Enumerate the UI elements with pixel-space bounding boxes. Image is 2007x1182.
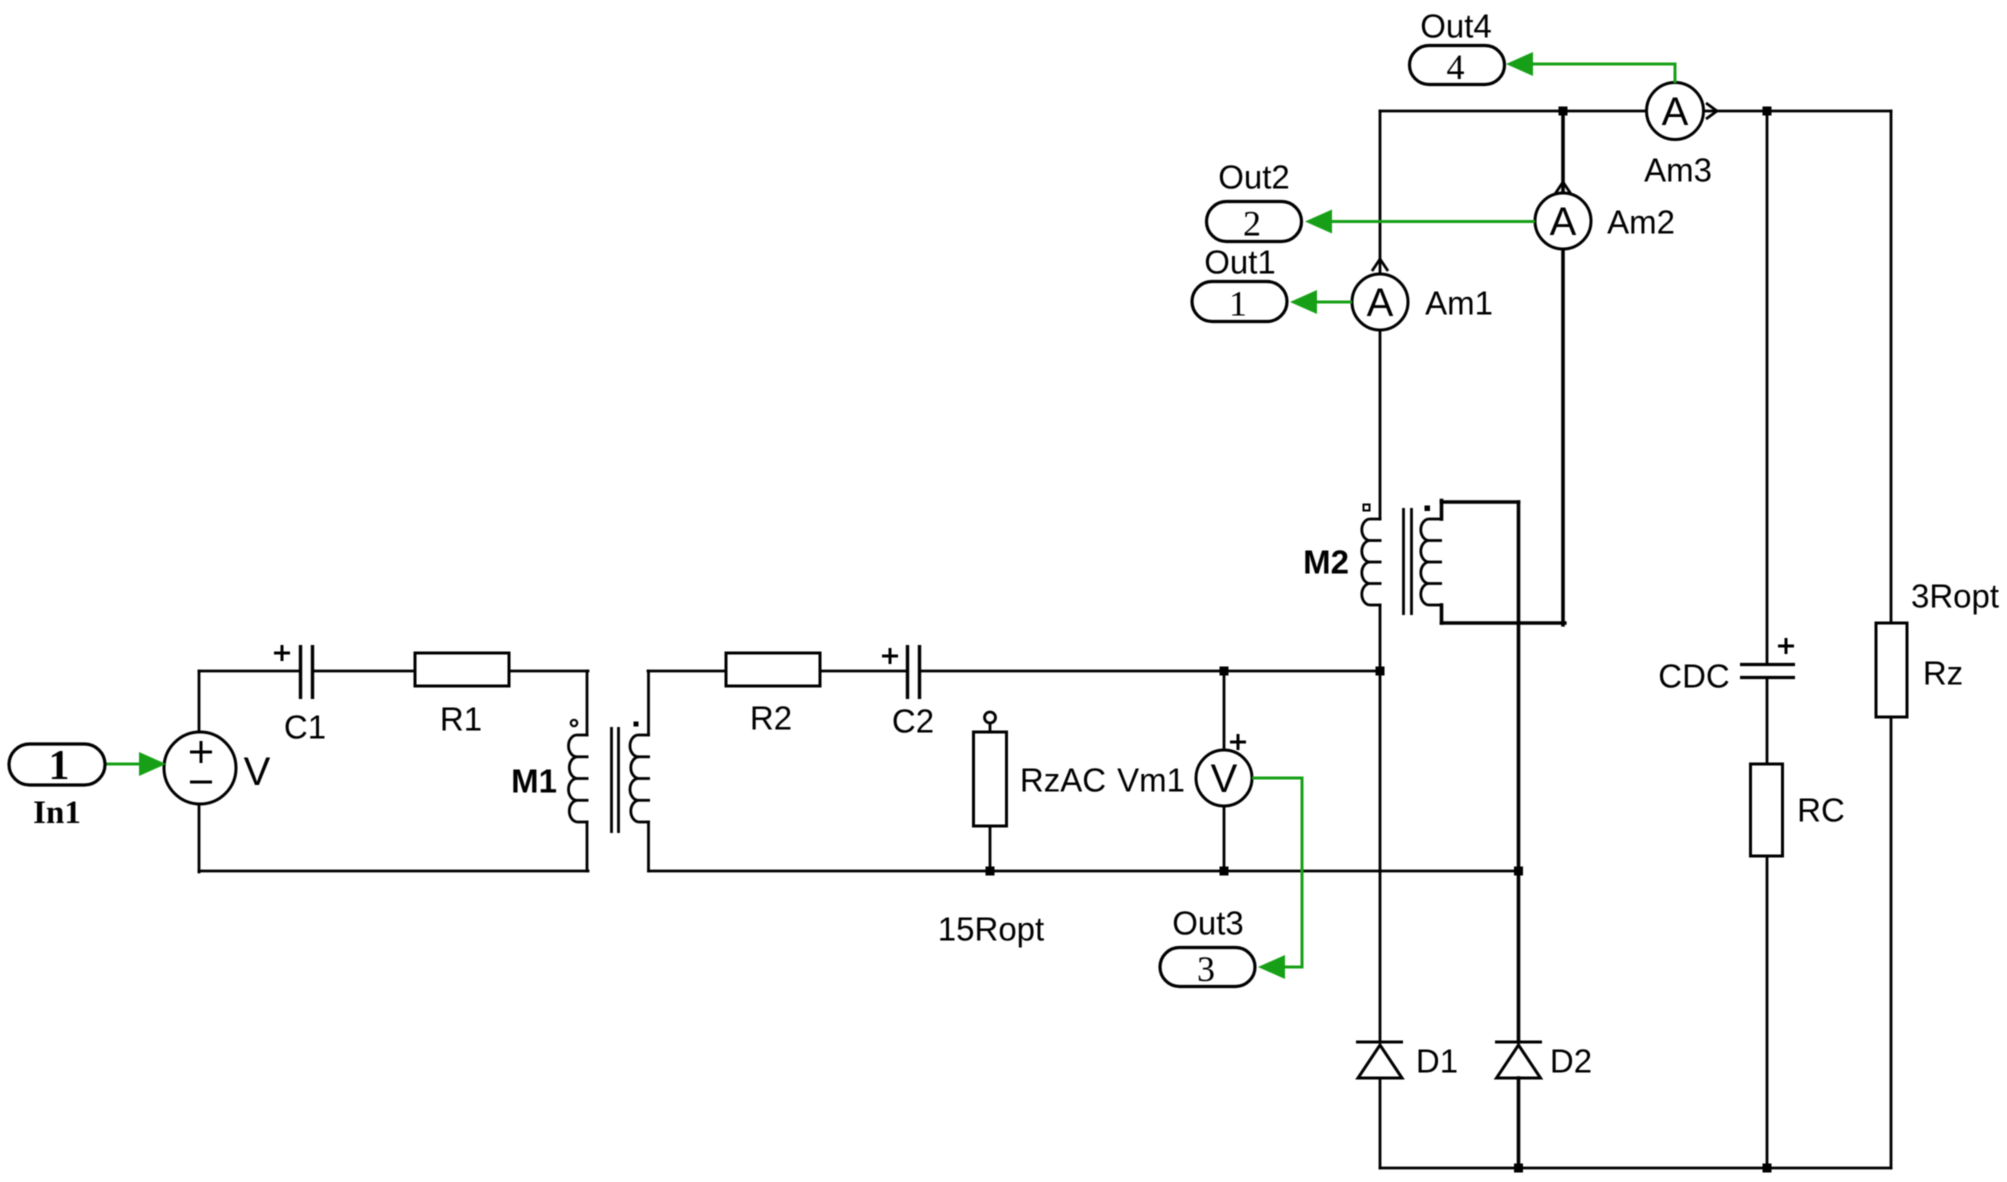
svg-text:15Ropt: 15Ropt <box>938 911 1044 948</box>
svg-text:Out1: Out1 <box>1204 244 1276 281</box>
svg-text:RzAC: RzAC <box>1020 762 1106 799</box>
svg-text:M1: M1 <box>511 763 557 800</box>
svg-text:3Ropt: 3Ropt <box>1911 578 1999 615</box>
svg-text:A: A <box>1662 90 1689 134</box>
svg-text:Out2: Out2 <box>1218 159 1290 196</box>
svg-text:CDC: CDC <box>1658 658 1730 695</box>
svg-text:C2: C2 <box>892 703 934 740</box>
svg-text:3: 3 <box>1197 949 1215 989</box>
svg-text:D1: D1 <box>1416 1043 1458 1080</box>
svg-text:4: 4 <box>1447 47 1465 87</box>
svg-text:RC: RC <box>1797 792 1845 829</box>
svg-text:V: V <box>244 750 271 794</box>
svg-text:Out4: Out4 <box>1420 8 1492 45</box>
svg-text:In1: In1 <box>33 795 81 831</box>
svg-text:Am2: Am2 <box>1607 204 1675 241</box>
svg-text:Vm1: Vm1 <box>1117 762 1185 799</box>
svg-text:1: 1 <box>1229 284 1247 324</box>
svg-text:V: V <box>1211 757 1238 801</box>
svg-text:Out3: Out3 <box>1172 905 1244 942</box>
svg-text:Rz: Rz <box>1923 655 1963 692</box>
svg-text:2: 2 <box>1243 204 1261 244</box>
svg-text:Am1: Am1 <box>1425 285 1493 322</box>
svg-text:C1: C1 <box>284 709 326 746</box>
svg-text:R1: R1 <box>440 701 482 738</box>
svg-text:D2: D2 <box>1550 1043 1592 1080</box>
svg-text:Am3: Am3 <box>1644 152 1712 189</box>
svg-text:1: 1 <box>49 743 70 789</box>
svg-text:R2: R2 <box>750 700 792 737</box>
svg-text:A: A <box>1367 281 1394 325</box>
svg-text:M2: M2 <box>1303 544 1349 581</box>
svg-text:A: A <box>1550 200 1577 244</box>
